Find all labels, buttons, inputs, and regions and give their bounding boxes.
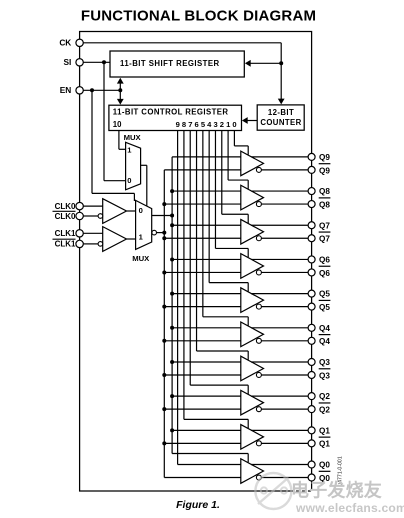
pin CK <box>76 39 83 46</box>
wire driver Q3 complement output with bubble <box>256 372 261 377</box>
wire buffer A2 to clock mux input 1 <box>127 238 136 240</box>
pin Q5 <box>308 290 315 297</box>
pin Q9B <box>308 166 315 173</box>
svg-text:9: 9 <box>176 120 180 129</box>
pin EN <box>76 87 83 94</box>
pin Q7B <box>308 235 315 242</box>
wire rail A branch to driver Q3 lower input <box>164 374 241 376</box>
wire rail B branch to driver Q7 upper input <box>172 224 241 226</box>
svg-text:Q4: Q4 <box>319 324 330 333</box>
driver U8 (output driver Q8) <box>241 185 264 210</box>
svg-text:12-BIT: 12-BIT <box>268 108 294 117</box>
wire driver Q9 true output <box>251 156 312 158</box>
wire driver Q0 true output <box>251 464 312 466</box>
svg-text:Q8: Q8 <box>319 200 330 209</box>
wire CLK0 to buffer A1 <box>83 205 102 207</box>
svg-text:Q0: Q0 <box>319 461 330 470</box>
svg-text:10: 10 <box>113 120 122 129</box>
pin CLK0B <box>76 212 83 219</box>
svg-text:3: 3 <box>213 120 217 129</box>
svg-text:6: 6 <box>195 120 199 129</box>
wire rail B top corner to driver Q9 upper input <box>172 156 241 158</box>
svg-text:Q6: Q6 <box>319 255 330 264</box>
wire driver Q1 true output <box>251 429 312 431</box>
wire rail A branch to driver Q1 lower input <box>164 442 241 444</box>
svg-text:Figure 1.: Figure 1. <box>176 499 220 511</box>
svg-text:Q1: Q1 <box>319 426 330 435</box>
chip outline border <box>80 32 312 492</box>
mux M1 (bit10/SI select) <box>126 142 141 190</box>
driver U4 (output driver Q4) <box>241 322 264 347</box>
wire CK arrow into shift register right edge <box>250 62 281 64</box>
wire driver Q6 complement output with bubble <box>256 270 261 275</box>
svg-text:Q2: Q2 <box>319 406 330 415</box>
svg-text:Q7: Q7 <box>319 235 330 244</box>
svg-text:SI: SI <box>63 57 71 67</box>
wire clock mux true output to rail B <box>152 215 172 217</box>
pin CLK0 <box>76 202 83 209</box>
wire driver Q4 true output <box>251 327 312 329</box>
pin CLK1B <box>76 240 83 247</box>
driver U7 (output driver Q7) <box>241 219 264 244</box>
svg-text:FUNCTIONAL BLOCK DIAGRAM: FUNCTIONAL BLOCK DIAGRAM <box>81 8 316 25</box>
pin Q6 <box>308 256 315 263</box>
svg-text:COUNTER: COUNTER <box>260 118 301 127</box>
wire CK down into 12-bit counter <box>280 63 282 100</box>
wire rail A branch to driver Q2 lower input <box>164 408 241 410</box>
wire rail B branch to driver Q4 upper input <box>172 327 241 329</box>
driver U0 (output driver Q0) <box>241 459 264 484</box>
svg-text:7: 7 <box>188 120 192 129</box>
svg-text:MUX: MUX <box>132 254 150 263</box>
svg-text:Q3: Q3 <box>319 371 330 380</box>
wire driver Q7 true output <box>251 224 312 226</box>
wire rail B branch to driver Q3 upper input <box>172 361 241 363</box>
wire control bit 4 line to driver Q5 <box>208 131 210 283</box>
wire rail B branch to driver Q1 upper input <box>172 429 241 431</box>
svg-text:CLK0: CLK0 <box>55 202 76 211</box>
wire bidirectional arrow between shift and control registers <box>119 81 121 102</box>
pin Q4 <box>308 324 315 331</box>
svg-text:Q9: Q9 <box>319 153 330 162</box>
wire mux M1 output to clock mux select <box>141 164 147 166</box>
svg-text:Q4: Q4 <box>319 337 330 346</box>
svg-text:Q1: Q1 <box>319 440 330 449</box>
wire rail A bottom corner to driver Q0 lower input <box>164 477 241 479</box>
wire SI down to small mux 0 input <box>103 62 105 180</box>
wire EN down-left path to clock mux select <box>91 90 93 193</box>
wire rail A branch to driver Q6 lower input <box>164 271 241 273</box>
wire buffer A1 to clock mux input 0 <box>127 210 136 212</box>
wire control bit10 to mux M1 input 1 <box>118 131 120 150</box>
svg-text:Q9: Q9 <box>319 166 330 175</box>
svg-text:www.elecfans.com: www.elecfans.com <box>295 501 404 515</box>
wire clock mux inverted output to rail A <box>152 230 157 235</box>
wire rail A branch to driver Q8 lower input <box>164 203 241 205</box>
svg-text:2: 2 <box>220 120 224 129</box>
wire control bit 1 line to driver Q8 <box>227 131 229 181</box>
svg-text:EN: EN <box>60 85 72 95</box>
wire control bit 2 line to driver Q7 <box>221 131 223 215</box>
pin Q2 <box>308 393 315 400</box>
wire CLK1B to buffer A2 inverting input <box>83 243 98 245</box>
pin Q6B <box>308 269 315 276</box>
svg-text:Q5: Q5 <box>319 290 330 299</box>
pin Q3 <box>308 358 315 365</box>
svg-text:11-BIT SHIFT REGISTER: 11-BIT SHIFT REGISTER <box>120 59 220 68</box>
wire SI from pin to shift register <box>83 61 110 63</box>
wire driver Q8 true output <box>251 190 312 192</box>
svg-text:8: 8 <box>182 120 186 129</box>
wire control bit 7 line to driver Q2 <box>189 131 191 386</box>
node CK/shift-register junction <box>279 61 283 65</box>
driver U1 (output driver Q1) <box>241 425 264 450</box>
pin Q4B <box>308 337 315 344</box>
pin Q8B <box>308 201 315 208</box>
svg-text:Q8: Q8 <box>319 187 330 196</box>
pin Q7 <box>308 222 315 229</box>
wire driver Q0 complement output with bubble <box>256 475 261 480</box>
wire driver Q2 true output <box>251 395 312 397</box>
svg-text:CK: CK <box>59 38 71 48</box>
svg-text:CLK1: CLK1 <box>55 229 76 238</box>
driver U2 (output driver Q2) <box>241 390 264 415</box>
wire control bit 3 line to driver Q6 <box>214 131 216 249</box>
wire rail A branch to driver Q5 lower input <box>164 306 241 308</box>
wire driver Q9 complement output with bubble <box>256 167 261 172</box>
svg-text:MUX: MUX <box>124 133 142 142</box>
node EN/arrow junction <box>118 88 122 92</box>
block 11-bit control register U2 <box>109 105 242 130</box>
svg-text:Q7: Q7 <box>319 221 330 230</box>
pin Q3B <box>308 371 315 378</box>
wire rail A branch to driver Q4 lower input <box>164 340 241 342</box>
input buffer A1 (CLK0) <box>103 199 127 224</box>
watermark icon (elecfans logo circle) <box>255 473 291 509</box>
wire rail B branch to driver Q6 upper input <box>172 258 241 260</box>
node rail A / mux inverted output <box>162 231 166 235</box>
driver U9 (output driver Q9) <box>241 151 264 176</box>
input buffer A2 (CLK1) <box>103 227 127 252</box>
wire driver Q6 true output <box>251 258 312 260</box>
wire rail B branch to driver Q8 upper input <box>172 190 241 192</box>
svg-text:11-BIT CONTROL REGISTER: 11-BIT CONTROL REGISTER <box>113 108 229 117</box>
pin Q5B <box>308 303 315 310</box>
wire rail A branch to driver Q7 lower input <box>164 237 241 239</box>
pin Q1 <box>308 427 315 434</box>
wire clock rail B (true clock distribution) <box>171 157 173 454</box>
svg-text:CLK1: CLK1 <box>55 240 76 249</box>
pin Q2B <box>308 406 315 413</box>
mux M2 (clock select) <box>136 200 152 249</box>
block 12-bit counter U3 <box>257 105 304 130</box>
wire control bit 8 line to driver Q1 <box>183 131 185 420</box>
wire driver Q3 true output <box>251 361 312 363</box>
wire control bit 0 line to driver Q9 <box>233 131 235 146</box>
svg-text:CLK0: CLK0 <box>55 212 76 221</box>
pin Q0B <box>308 474 315 481</box>
wire driver Q4 complement output with bubble <box>256 338 261 343</box>
svg-text:0: 0 <box>127 176 131 185</box>
driver U5 (output driver Q5) <box>241 288 264 313</box>
pin Q8 <box>308 188 315 195</box>
wire driver Q8 complement output with bubble <box>256 202 261 207</box>
wire clock rail A (inverted clock distribution) <box>163 170 165 478</box>
wire EN from pin to bidirectional arrow <box>83 89 120 91</box>
pin SI <box>76 59 83 66</box>
pin Q1B <box>308 440 315 447</box>
wire driver Q5 complement output with bubble <box>256 304 261 309</box>
svg-text:0: 0 <box>139 206 143 215</box>
wire rail B branch to driver Q2 upper input <box>172 395 241 397</box>
wire counter to control register arrow <box>247 120 258 122</box>
node EN junction <box>90 88 94 92</box>
wire control bit 6 line to driver Q3 <box>196 131 198 351</box>
wire CLK1 to buffer A2 <box>83 232 102 234</box>
svg-text:电子发烧友: 电子发烧友 <box>291 480 382 501</box>
pin Q0 <box>308 461 315 468</box>
node SI junction <box>102 60 106 64</box>
driver U3 (output driver Q3) <box>241 356 264 381</box>
wire driver Q2 complement output with bubble <box>256 407 261 412</box>
driver U6 (output driver Q6) <box>241 254 264 279</box>
wire CLK0B to buffer A1 inverting input <box>83 215 98 217</box>
svg-text:Q6: Q6 <box>319 269 330 278</box>
wire control bit 5 line to driver Q4 <box>202 131 204 317</box>
wire CK from pin to top-right vertical <box>83 42 281 44</box>
wire control bit 9 line to driver Q0 <box>177 131 179 465</box>
wire rail B bottom corner to driver Q0 top entry <box>172 453 248 455</box>
block 11-bit shift register U1 <box>110 51 244 77</box>
svg-text:Q2: Q2 <box>319 392 330 401</box>
svg-text:Q5: Q5 <box>319 303 330 312</box>
wire driver Q1 complement output with bubble <box>256 441 261 446</box>
node rail B / mux true output <box>170 214 174 218</box>
wire driver Q7 complement output with bubble <box>256 236 261 241</box>
pin CLK1 <box>76 230 83 237</box>
wire rail A top corner to driver Q9 lower input <box>164 169 241 171</box>
svg-text:Q3: Q3 <box>319 358 330 367</box>
svg-text:0: 0 <box>232 120 236 129</box>
wire driver Q5 true output <box>251 293 312 295</box>
wire rail B branch to driver Q5 upper input <box>172 293 241 295</box>
pin Q9 <box>308 153 315 160</box>
